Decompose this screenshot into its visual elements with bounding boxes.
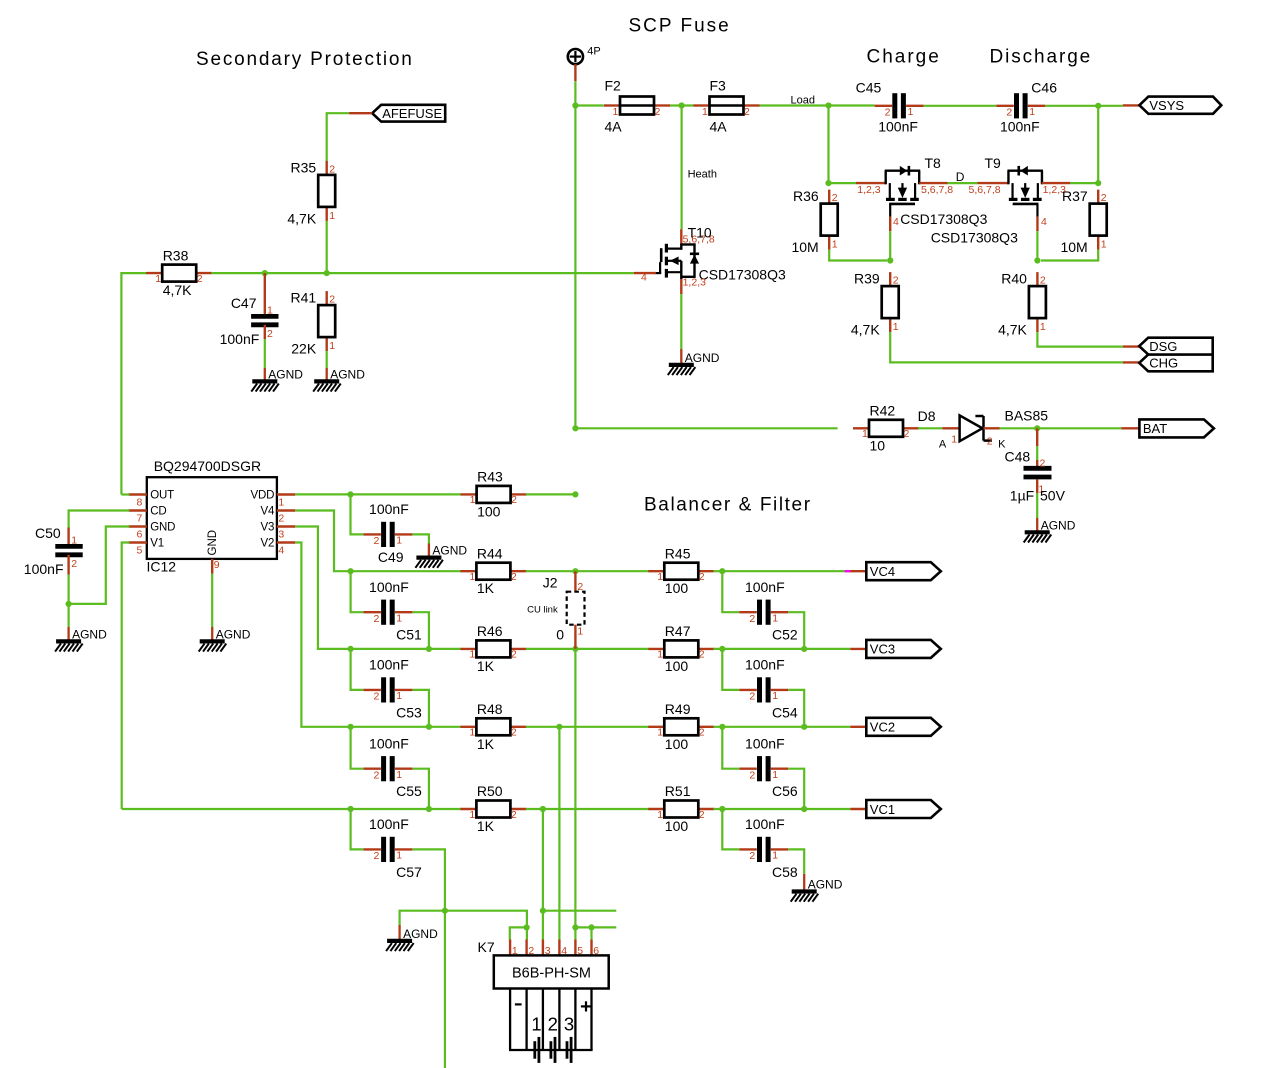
svg-text:100nF: 100nF (1000, 118, 1040, 134)
capacitor C45 (856, 80, 924, 135)
transistor T9 CSD17308Q3 (985, 155, 1048, 231)
wire T9 gate to junction (1036, 231, 1038, 260)
svg-text:1K: 1K (477, 580, 495, 596)
svg-text:2: 2 (548, 1013, 558, 1034)
wire K7 pin3 drop from VC1 row (542, 809, 544, 940)
pin stub IC12 pin 1 VDD (277, 493, 295, 495)
wire R42 to D8 (918, 427, 942, 429)
svg-text:V2: V2 (261, 537, 275, 549)
svg-text:R49: R49 (665, 701, 691, 717)
svg-text:1: 1 (396, 850, 402, 862)
svg-text:1: 1 (469, 571, 475, 583)
pin stub AFEFUSE (349, 112, 372, 114)
svg-text:1,2,3: 1,2,3 (683, 277, 707, 289)
svg-text:2: 2 (373, 535, 379, 547)
ground AGND at R41 (313, 367, 365, 391)
capacitor C53 (363, 657, 422, 721)
wire VC4 junction down to C51 (351, 571, 364, 612)
svg-text:F3: F3 (710, 78, 727, 94)
junction VC2 / K7 pin 4 drop (556, 724, 562, 730)
svg-text:2: 2 (749, 691, 755, 703)
resistor R42 (853, 403, 919, 454)
svg-text:BAS85: BAS85 (1005, 407, 1049, 423)
svg-text:2: 2 (511, 494, 517, 506)
resistor R38 (146, 247, 212, 298)
svg-text:100nF: 100nF (369, 816, 409, 832)
svg-text:1: 1 (657, 809, 663, 821)
svg-text:1: 1 (893, 321, 899, 333)
pin stub IC12 pin 7 CD (128, 509, 146, 511)
capacitor C46 (996, 80, 1057, 135)
svg-text:CSD17308Q3: CSD17308Q3 (931, 230, 1018, 246)
pin stub CHG flag (1123, 361, 1139, 363)
svg-text:K7: K7 (478, 939, 495, 955)
battery cell 3 (564, 1013, 574, 1063)
svg-text:2: 2 (1040, 275, 1046, 287)
wire V3 feeder (295, 527, 461, 649)
pin stub K7 pin 2 (525, 940, 527, 956)
wire R36 bottom to gate junction (829, 250, 887, 261)
capacitor C56 (739, 735, 798, 799)
svg-text:7: 7 (137, 513, 143, 525)
ground AGND at C48 (1024, 518, 1076, 543)
svg-text:VC1: VC1 (870, 802, 895, 817)
junction T8 gate / R36 / R39 (887, 257, 893, 263)
resistor R48 (460, 701, 526, 752)
svg-text:2: 2 (373, 850, 379, 862)
svg-text:4: 4 (1041, 216, 1047, 228)
pin stub C47 top (264, 273, 266, 316)
wire K7 pin5-pin6 row (575, 926, 616, 928)
svg-text:2: 2 (373, 769, 379, 781)
pin stub C50 top (67, 528, 69, 547)
svg-text:C48: C48 (1005, 448, 1031, 464)
resistor R41 (291, 290, 336, 357)
net flag VC4 (866, 562, 941, 580)
svg-text:CU link: CU link (527, 605, 558, 616)
wire V1 to left vertical (122, 543, 130, 810)
wire VC4 junction down to C52 (722, 571, 739, 612)
ground AGND at bottom row (386, 925, 438, 951)
svg-text:R41: R41 (291, 290, 317, 306)
wire V1 row (122, 808, 462, 810)
wire bottom ground row (left segment) (400, 911, 527, 940)
svg-text:10M: 10M (1060, 239, 1087, 255)
svg-text:1K: 1K (477, 736, 495, 752)
wire C55 to VC1 row (413, 769, 429, 809)
svg-text:2: 2 (699, 809, 705, 821)
jumper J2 CU link (527, 571, 584, 649)
junction top bus / 4P (572, 102, 578, 108)
wire VDD junction down to C49 (351, 494, 364, 534)
svg-text:5,6,7,8: 5,6,7,8 (969, 184, 1001, 196)
svg-text:1: 1 (1029, 106, 1035, 118)
wire F3 junction down to T10 (680, 106, 682, 230)
svg-text:100nF: 100nF (745, 579, 785, 595)
svg-text:GND: GND (150, 521, 175, 533)
resistor R50 (460, 783, 526, 834)
wire Load node down to T8 row (827, 106, 829, 184)
svg-text:C56: C56 (772, 783, 798, 799)
svg-text:OUT: OUT (150, 489, 174, 501)
svg-text:C47: C47 (231, 295, 257, 311)
svg-text:AGND: AGND (685, 351, 720, 365)
svg-text:1: 1 (772, 769, 778, 781)
wire GND pin to ground junction (69, 527, 130, 604)
pin stub C48 top (1036, 428, 1038, 446)
svg-text:C54: C54 (772, 704, 798, 720)
svg-text:T8: T8 (925, 155, 942, 171)
svg-text:4,7K: 4,7K (998, 322, 1027, 338)
wire C56 to VC1 row (788, 769, 804, 809)
svg-text:1: 1 (470, 494, 476, 506)
svg-text:4,7K: 4,7K (851, 322, 880, 338)
svg-text:Load: Load (791, 95, 815, 107)
svg-text:1K: 1K (477, 818, 495, 834)
IC IC12 BQ294700DSGR (147, 458, 277, 575)
wire R48 to R49 (526, 726, 649, 728)
capacitor C52 (739, 579, 798, 643)
resistor R51 (648, 783, 714, 834)
wire central vertical top bus to BAT row (574, 106, 576, 429)
svg-text:C45: C45 (856, 80, 882, 96)
svg-text:SCP Fuse: SCP Fuse (629, 16, 731, 37)
junction VC2 row / cap branch right (426, 724, 432, 730)
svg-text:100: 100 (665, 658, 689, 674)
wire VSYS node down to T9 row (1097, 106, 1099, 183)
svg-text:1: 1 (329, 210, 335, 222)
net flag VC3 (866, 640, 941, 658)
wire C57 drop continues to bottom edge (444, 911, 446, 1068)
wire VC1 junction down to C58 (722, 809, 739, 849)
pin stub T8 pins 1,2,3 (856, 182, 886, 184)
svg-text:2: 2 (197, 273, 203, 285)
junction VC4 row / cap branch left (348, 568, 354, 574)
junction K7 pin2 / pin1 branch (524, 924, 530, 930)
svg-text:R45: R45 (665, 545, 691, 561)
svg-text:4: 4 (641, 271, 647, 283)
junction VDD / C49 (347, 491, 353, 497)
svg-text:1: 1 (657, 727, 663, 739)
svg-text:50V: 50V (1040, 487, 1066, 503)
pin stub K7 pin 4 (558, 940, 560, 956)
bus marker on VC4 row (845, 570, 851, 572)
ground AGND at C50 (55, 627, 107, 652)
svg-text:D8: D8 (918, 408, 936, 424)
pin stub C50 bottom (67, 555, 69, 575)
capacitor C55 (363, 735, 422, 799)
svg-text:2: 2 (511, 809, 517, 821)
wire C50 bottom to ground junction (67, 575, 69, 604)
connector K7 B6B-PH-SM (494, 955, 609, 988)
svg-text:22K: 22K (291, 341, 317, 357)
svg-text:C52: C52 (772, 627, 798, 643)
svg-text:Heath: Heath (688, 169, 717, 181)
pin stub IC12 pin 8 OUT (128, 493, 146, 495)
junction VC1 / filter cap left (719, 806, 725, 812)
pin stub VC3 flag (850, 648, 866, 650)
junction VC1 / filter cap right (801, 806, 807, 812)
wire VC3 row to R47 (575, 648, 649, 650)
wire top bus 4P to F2 (575, 104, 603, 106)
capacitor C54 (739, 657, 798, 721)
wire 4P down to top bus (574, 81, 576, 105)
junction K7 pin5 row (572, 924, 578, 930)
svg-text:1µF: 1µF (1010, 487, 1034, 503)
pin stub IC12 pin 4 V2 (277, 541, 295, 543)
junction R35/R41 branch (324, 270, 330, 276)
svg-text:R37: R37 (1062, 188, 1088, 204)
wire bottom ground row (right segment) (543, 910, 616, 912)
resistor R37 (1060, 188, 1106, 255)
svg-text:2: 2 (71, 558, 77, 570)
wire K7 pin6 drop (590, 927, 592, 939)
wire T8 to T9 (node D) (948, 182, 978, 184)
net flag AFEFUSE (372, 105, 445, 122)
wire T8 row left segment (829, 182, 857, 184)
svg-text:AGND: AGND (330, 367, 365, 381)
resistor R49 (648, 701, 714, 752)
svg-text:2: 2 (904, 428, 910, 440)
pin stub T9 pins 5,6,7,8 (978, 182, 1009, 184)
wire C47 to ground (264, 339, 266, 368)
svg-text:2: 2 (749, 850, 755, 862)
svg-text:10: 10 (870, 437, 886, 453)
pin stub C47 bottom (264, 325, 266, 339)
junction K7 pin3 / ground row (540, 908, 546, 914)
resistor R45 (648, 545, 714, 596)
fuse F3 (694, 78, 760, 135)
svg-text:VC4: VC4 (870, 564, 895, 579)
svg-text:1: 1 (832, 239, 838, 251)
wire VC1 junction down to C57 (351, 809, 364, 849)
svg-text:V3: V3 (261, 521, 275, 533)
pin stub K7 pin 1 (509, 940, 511, 956)
pin stub K7 pin 3 (542, 940, 544, 956)
svg-text:1: 1 (657, 571, 663, 583)
svg-text:1: 1 (951, 433, 957, 445)
wire R35 bottom to row (326, 221, 328, 273)
svg-text:9: 9 (214, 559, 220, 571)
svg-text:2: 2 (329, 294, 335, 306)
svg-text:100: 100 (665, 736, 689, 752)
resistor R35 (287, 159, 335, 226)
svg-text:2: 2 (699, 571, 705, 583)
svg-text:100nF: 100nF (745, 816, 785, 832)
svg-text:2: 2 (278, 513, 284, 525)
svg-text:1: 1 (396, 535, 402, 547)
wire VC3 junction down to C53 (351, 649, 364, 690)
svg-text:B6B-PH-SM: B6B-PH-SM (512, 965, 591, 981)
svg-text:8: 8 (137, 497, 143, 509)
ground AGND at C49 (415, 544, 467, 568)
svg-text:100nF: 100nF (369, 501, 409, 517)
pin stub IC12 pin 5 V1 (128, 541, 146, 543)
wire R50 to R51 (526, 808, 649, 810)
wire VC2 row to flag (713, 726, 850, 728)
svg-text:100nF: 100nF (24, 561, 64, 577)
junction VC3 / filter cap left (719, 646, 725, 652)
capacitor C47 (220, 295, 279, 347)
capacitor C58 (739, 816, 798, 880)
pin stub T9 pins 1,2,3 (1042, 182, 1070, 184)
svg-text:R47: R47 (665, 623, 691, 639)
svg-text:AFEFUSE: AFEFUSE (382, 106, 442, 121)
junction C57 drop / ground row (442, 908, 448, 914)
svg-text:T10: T10 (688, 224, 712, 240)
svg-text:4A: 4A (710, 119, 728, 135)
svg-text:C51: C51 (396, 627, 422, 643)
svg-text:2: 2 (267, 328, 273, 340)
svg-text:T9: T9 (985, 155, 1002, 171)
wire VDD to R43 (295, 493, 461, 495)
svg-text:1K: 1K (477, 658, 495, 674)
svg-text:CHG: CHG (1149, 356, 1178, 371)
svg-text:2: 2 (373, 613, 379, 625)
svg-text:1: 1 (772, 850, 778, 862)
pin stub DSG flag (1123, 345, 1139, 347)
junction C47 branch (262, 270, 268, 276)
junction C48 branch (1034, 425, 1040, 431)
wire T8 gate to junction (889, 231, 891, 260)
svg-text:2: 2 (577, 581, 583, 593)
net flag DSG (1139, 338, 1213, 355)
wire R41 to ground (326, 351, 328, 368)
svg-text:2: 2 (329, 163, 335, 175)
capacitor C57 (363, 816, 422, 880)
net flag CHG (1139, 355, 1213, 372)
junction central vertical / VDD net (572, 491, 578, 497)
pin stub K7 pin 5 (574, 940, 576, 956)
svg-text:A: A (939, 438, 947, 450)
wire R43 to central vertical (526, 493, 576, 495)
ground AGND at C47 (251, 367, 303, 391)
svg-text:1: 1 (613, 106, 619, 118)
svg-text:C46: C46 (1031, 80, 1057, 96)
svg-text:VDD: VDD (251, 489, 275, 501)
wire C58 to ground (788, 849, 804, 874)
wire into C48 (1036, 446, 1038, 460)
svg-text:C49: C49 (378, 549, 404, 565)
pin stub VC4 flag (850, 570, 866, 572)
wire Load node to C45 (829, 104, 875, 106)
svg-text:2: 2 (511, 727, 517, 739)
wire R37 bottom to gate junction (1041, 250, 1098, 261)
svg-text:R43: R43 (477, 469, 503, 485)
svg-text:2: 2 (744, 106, 750, 118)
svg-text:VC3: VC3 (870, 642, 895, 657)
pin stub IC12 pin 6 GND (128, 525, 146, 527)
wire C57 to bottom ground row (413, 849, 445, 910)
svg-text:AGND: AGND (1041, 518, 1076, 532)
net flag VC2 (866, 718, 941, 736)
svg-text:1: 1 (657, 649, 663, 661)
svg-text:2: 2 (1040, 458, 1046, 470)
wire VC2 junction down to C56 (722, 727, 739, 769)
svg-text:100nF: 100nF (745, 657, 785, 673)
svg-text:1: 1 (772, 690, 778, 702)
pin stub VC1 flag (850, 808, 866, 810)
svg-text:C53: C53 (396, 704, 422, 720)
svg-text:R40: R40 (1001, 271, 1027, 287)
svg-text:Secondary Protection: Secondary Protection (196, 49, 414, 70)
capacitor C50 (24, 525, 83, 577)
svg-text:Balancer & Filter: Balancer & Filter (644, 495, 812, 516)
svg-text:100: 100 (477, 503, 501, 519)
svg-text:6: 6 (137, 529, 143, 541)
ground AGND at C58 (791, 874, 843, 902)
svg-text:2: 2 (511, 649, 517, 661)
svg-text:2: 2 (749, 613, 755, 625)
svg-text:R38: R38 (163, 247, 189, 263)
svg-text:VC2: VC2 (870, 720, 895, 735)
wire K7 pin5 drop (central vertical) (574, 649, 576, 940)
pin stub IC12 pin 3 V3 (277, 525, 295, 527)
wire R38 to C47 junction and T10 gate (211, 272, 634, 274)
svg-text:100nF: 100nF (369, 579, 409, 595)
wire R44 to central vertical (526, 570, 576, 572)
svg-text:R42: R42 (870, 403, 896, 419)
power symbol 4P (568, 45, 601, 64)
svg-text:100nF: 100nF (369, 657, 409, 673)
junction VC4 / filter cap left (719, 568, 725, 574)
junction T8 row left (825, 180, 831, 186)
svg-text:1: 1 (396, 769, 402, 781)
junction F3 / T10 branch (679, 102, 685, 108)
junction T9 gate / R37 / R40 (1034, 257, 1040, 263)
svg-text:2: 2 (655, 106, 661, 118)
svg-text:100nF: 100nF (745, 735, 785, 751)
wire C49 to ground drop (413, 534, 429, 543)
pin stub T10 gate pin 4 (634, 272, 656, 274)
svg-text:100nF: 100nF (369, 735, 409, 751)
svg-text:2: 2 (699, 649, 705, 661)
capacitor C48 (1005, 448, 1066, 503)
battery cell 2 (548, 1013, 558, 1063)
svg-text:IC12: IC12 (147, 558, 177, 574)
wire C51 to VC3 row (413, 612, 429, 649)
wire R39 bottom to CHG (890, 332, 1123, 362)
svg-text:10M: 10M (791, 239, 818, 255)
battery cell 1 (531, 1013, 541, 1063)
svg-text:1: 1 (396, 612, 402, 624)
wire VC3 row to flag (713, 648, 850, 650)
wire BAT row to R42 (575, 427, 837, 429)
svg-text:BQ294700DSGR: BQ294700DSGR (154, 458, 261, 474)
svg-text:R44: R44 (477, 545, 503, 561)
junction VC3 / filter cap right (801, 646, 807, 652)
ground AGND at IC12 pin 9 (199, 627, 251, 652)
svg-text:R50: R50 (477, 783, 503, 799)
svg-text:100: 100 (665, 818, 689, 834)
wire V2 feeder (295, 543, 461, 727)
svg-text:2: 2 (832, 192, 838, 204)
wire D8 to BAT flag (1000, 427, 1122, 429)
transistor T10 CSD17308Q3 (655, 243, 699, 279)
svg-text:AGND: AGND (808, 878, 843, 892)
wire AFEFUSE to R35 (327, 113, 349, 161)
svg-text:1: 1 (155, 273, 161, 285)
svg-text:C55: C55 (396, 783, 422, 799)
junction K7 pin6 row (588, 924, 594, 930)
svg-text:5,6,7,8: 5,6,7,8 (921, 184, 953, 196)
wire VC1 row to flag (713, 808, 850, 810)
junction VC1 / K7 pin 3 drop (540, 806, 546, 812)
svg-text:AGND: AGND (72, 627, 107, 641)
wire row R38 left corner (121, 273, 147, 494)
svg-text:5: 5 (137, 545, 143, 557)
wire VC3 junction down to C54 (722, 649, 739, 690)
